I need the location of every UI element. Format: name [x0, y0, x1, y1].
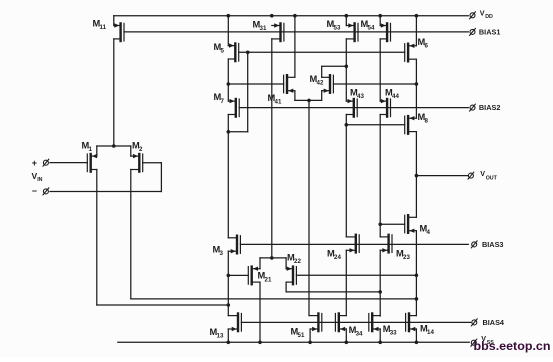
svg-text:−: −: [32, 186, 37, 196]
svg-text:22: 22: [294, 258, 301, 265]
svg-text:44: 44: [392, 93, 399, 100]
svg-text:BIAS1: BIAS1: [479, 27, 501, 36]
svg-text:V: V: [480, 169, 485, 178]
svg-text:8: 8: [425, 118, 429, 125]
svg-text:13: 13: [217, 332, 224, 339]
svg-text:BIAS3: BIAS3: [482, 240, 504, 249]
svg-text:42: 42: [317, 79, 324, 86]
svg-text:IN: IN: [37, 177, 42, 183]
svg-text:3: 3: [220, 250, 224, 257]
svg-text:24: 24: [334, 254, 341, 261]
svg-text:53: 53: [334, 25, 341, 32]
svg-text:2: 2: [139, 146, 143, 153]
svg-text:54: 54: [368, 25, 375, 32]
svg-text:bbs.eetop.cn: bbs.eetop.cn: [474, 339, 551, 353]
svg-text:41: 41: [275, 99, 282, 106]
svg-text:4: 4: [427, 229, 431, 236]
svg-text:51: 51: [298, 332, 305, 339]
svg-text:31: 31: [260, 25, 267, 32]
svg-text:33: 33: [390, 329, 397, 336]
svg-text:DD: DD: [485, 14, 493, 20]
svg-text:34: 34: [356, 330, 363, 337]
svg-text:+: +: [32, 158, 37, 168]
svg-text:7: 7: [221, 98, 225, 105]
svg-text:43: 43: [357, 93, 364, 100]
svg-text:5: 5: [221, 48, 225, 55]
svg-text:14: 14: [427, 329, 434, 336]
svg-text:23: 23: [403, 254, 410, 261]
svg-text:V: V: [480, 8, 485, 17]
svg-text:1: 1: [89, 146, 93, 153]
svg-text:6: 6: [425, 43, 429, 50]
svg-text:OUT: OUT: [486, 175, 498, 181]
svg-text:BIAS4: BIAS4: [483, 318, 505, 327]
svg-text:11: 11: [100, 24, 107, 31]
svg-text:21: 21: [265, 276, 272, 283]
svg-text:BIAS2: BIAS2: [479, 103, 501, 112]
